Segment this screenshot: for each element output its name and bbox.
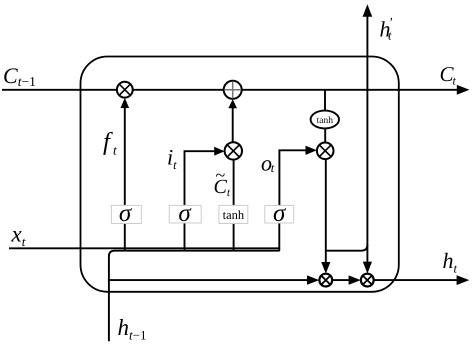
wire: tanhbox down stub <box>233 224 235 252</box>
arrowhead: down into mult-h2 <box>363 262 372 274</box>
wire: sigma1 down stub <box>124 224 126 252</box>
wire: sigma2 down stub <box>184 223 186 252</box>
wire: h_{t-1} branch horizontal <box>109 251 280 257</box>
wire: i corner line <box>185 151 215 205</box>
wire: C line horizontal <box>2 89 458 91</box>
svg-text:tanh: tanh <box>317 116 334 126</box>
tanh ellipse <box>311 111 339 129</box>
multiplier mult-h2 <box>361 274 374 287</box>
arrowhead: into mult-h2 <box>349 275 361 284</box>
wire: tanh ellipse to mult-o <box>324 128 326 142</box>
multiplier mult-h1 <box>319 274 332 287</box>
wire: hprime vertical <box>366 16 368 262</box>
arrowhead: o into mult-o <box>306 146 317 155</box>
wire: mult-h2 to h_t output <box>374 279 458 281</box>
wire: h bottom line to mult-h1 <box>109 279 308 281</box>
arrowhead: h'_t up output <box>363 4 373 16</box>
arrowhead: h_t output <box>457 275 470 285</box>
gate box sigma2 <box>169 200 201 227</box>
arrowhead: into plus <box>228 99 237 108</box>
gate box sigma3 <box>265 200 294 227</box>
multiplier mult-f <box>117 82 133 98</box>
svg-text:σ: σ <box>178 200 192 227</box>
wire: o corner line <box>279 150 305 205</box>
svg-text:t: t <box>113 143 117 158</box>
wire: branch to hprime with corner <box>326 245 368 251</box>
arrowhead: C_t output <box>457 85 470 95</box>
svg-text:t: t <box>453 74 457 88</box>
svg-text:tanh: tanh <box>223 208 245 222</box>
svg-text:it: it <box>167 145 177 173</box>
adder plus <box>224 81 242 99</box>
svg-text:f: f <box>103 129 113 156</box>
wire: sigma3 down corner <box>278 223 280 251</box>
wire: C to tanh ellipse <box>324 90 326 111</box>
wire: mult-o down to mult-h1 <box>325 159 327 262</box>
svg-text:~: ~ <box>216 165 226 185</box>
svg-text:t: t <box>388 29 392 43</box>
wire: x_t input line <box>9 247 280 249</box>
wire: h_{t-1} vertical <box>108 255 110 341</box>
cell body rounded box <box>81 57 399 292</box>
multiplier mult-o <box>317 143 334 160</box>
gate box tanh <box>219 205 248 223</box>
multiplier mult-c <box>225 142 242 159</box>
gate box sigma1 <box>111 200 141 227</box>
arrowhead: into mult-f <box>121 98 130 108</box>
wire: add-up line from mult-c to plus <box>232 108 234 142</box>
svg-text:σ: σ <box>119 200 133 227</box>
wire: mult-h1 to mult-h2 <box>332 279 349 281</box>
wire: sigma1 up line <box>124 108 126 206</box>
svg-text:σ: σ <box>273 200 287 227</box>
wire: tanhbox up line <box>233 160 235 206</box>
svg-text:Ct−1: Ct−1 <box>3 63 36 89</box>
svg-text:ht−1: ht−1 <box>118 315 147 343</box>
arrowhead: i into mult-c <box>214 147 224 156</box>
svg-text:t: t <box>271 161 275 175</box>
svg-text:xt: xt <box>11 222 26 250</box>
arrowhead: h line into mult-h1 <box>307 275 319 284</box>
arrowhead: down into mult-h1 <box>321 262 330 274</box>
svg-text:ht: ht <box>443 248 458 276</box>
